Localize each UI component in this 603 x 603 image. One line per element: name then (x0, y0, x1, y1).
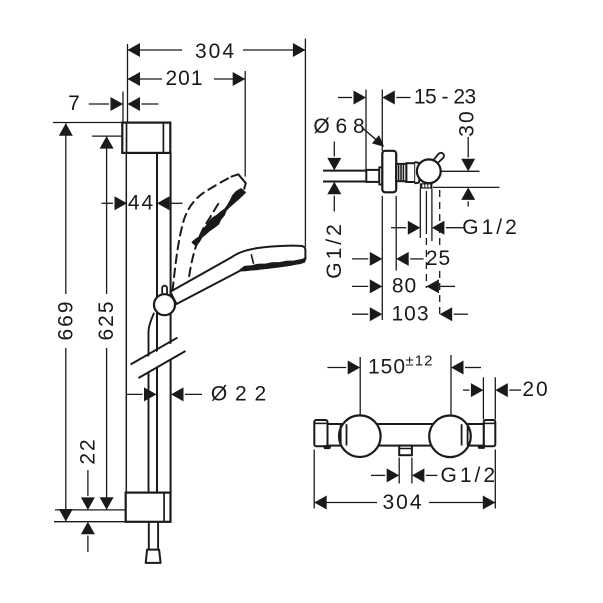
svg-text:22: 22 (76, 437, 99, 464)
svg-text:201: 201 (165, 67, 203, 90)
svg-text:304: 304 (382, 491, 423, 514)
svg-text:625: 625 (95, 299, 118, 340)
svg-text:44: 44 (128, 192, 155, 215)
svg-text:G1/2: G1/2 (441, 464, 499, 487)
svg-text:25: 25 (426, 247, 451, 270)
svg-text:103: 103 (391, 302, 429, 325)
svg-text:15 - 23: 15 - 23 (414, 86, 476, 109)
svg-text:Ø 2 2: Ø 2 2 (211, 383, 267, 406)
svg-text:20: 20 (522, 378, 549, 401)
svg-text:G1/2: G1/2 (323, 221, 346, 279)
svg-text:150: 150 (368, 356, 406, 379)
svg-text:G1/2: G1/2 (462, 216, 520, 239)
svg-text:30: 30 (455, 109, 478, 136)
svg-text:±12: ±12 (406, 353, 434, 370)
svg-text:7: 7 (68, 92, 82, 115)
svg-text:Ø 6 8: Ø 6 8 (313, 115, 364, 138)
svg-text:669: 669 (55, 299, 78, 340)
svg-text:304: 304 (195, 40, 236, 63)
svg-text:80: 80 (392, 275, 417, 298)
